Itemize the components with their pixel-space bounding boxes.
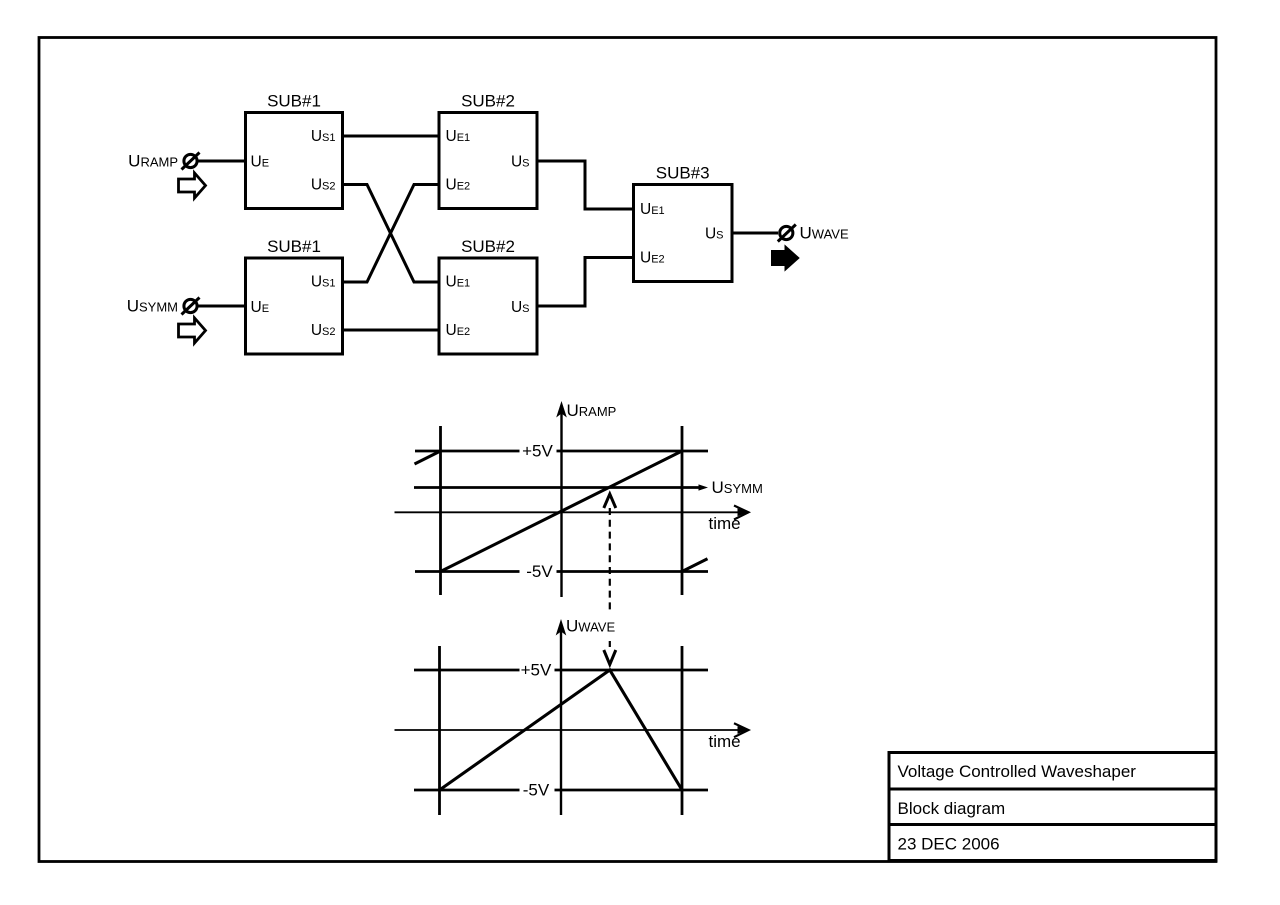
svg-text:-5V: -5V <box>523 781 550 800</box>
svg-text:SUB#1: SUB#1 <box>267 237 321 256</box>
svg-text:USYMM: USYMM <box>127 297 178 316</box>
graph 1 ramp trace next cycle <box>682 559 708 572</box>
wire URAMP to UE (top SUB#1) <box>199 160 246 163</box>
svg-text:+5V: +5V <box>522 442 553 461</box>
output arrow UWAVE (solid) <box>772 246 800 271</box>
wire US2(bottom SUB#1) to UE2(bottom SUB#2) <box>343 329 440 332</box>
graph 1 -5V level line <box>415 570 708 573</box>
svg-text:time: time <box>709 514 741 533</box>
block SUB#3 <box>634 164 733 282</box>
wire US1(top SUB#1) to UE1(top SUB#2) <box>343 135 440 138</box>
svg-text:URAMP: URAMP <box>128 152 178 171</box>
svg-text:SUB#3: SUB#3 <box>656 164 710 183</box>
graph 1 USYMM level line <box>414 484 708 490</box>
block SUB#2 (top) <box>439 92 537 209</box>
wire US2(top SUB#1) to UE1(bottom SUB#2) crossing <box>343 185 440 283</box>
title block frame <box>889 753 1216 861</box>
input arrow URAMP (hollow) <box>179 173 206 198</box>
svg-text:SUB#2: SUB#2 <box>461 92 515 111</box>
input arrow USYMM (hollow) <box>179 318 206 343</box>
port symbol USYMM (circle slash) <box>182 298 200 315</box>
port symbol URAMP (circle slash) <box>182 153 200 170</box>
graph 2 triangle wave trace <box>440 670 683 790</box>
wire USYMM to UE (bottom SUB#1) <box>199 305 246 308</box>
dashed pointer down arrowhead at UWAVE peak <box>604 650 616 665</box>
graph 1 ramp trace main <box>441 451 683 572</box>
graph 2 time axis <box>395 723 749 737</box>
graph 1 y-axis URAMP <box>556 401 567 597</box>
graph 2 -5V level line <box>414 789 708 792</box>
block SUB#2 (bottom) <box>439 237 537 354</box>
graph 2 left gridline <box>438 646 441 815</box>
graph 1 left gridline <box>439 426 442 595</box>
graph 2 +5V level line <box>414 669 708 672</box>
svg-text:Block diagram: Block diagram <box>898 799 1006 818</box>
graph 1 ramp trace previous cycle <box>415 451 441 464</box>
svg-text:USYMM: USYMM <box>712 478 763 497</box>
wire US(bottom SUB#2) to UE2(SUB#3) <box>537 258 634 307</box>
wire US(SUB#3) to UWAVE output <box>732 232 778 235</box>
svg-text:Voltage Controlled Waveshaper: Voltage Controlled Waveshaper <box>898 762 1137 781</box>
svg-text:-5V: -5V <box>526 562 553 581</box>
dashed pointer line lower part <box>609 641 611 647</box>
port symbol UWAVE (circle slash) <box>778 225 796 242</box>
dashed pointer line upper part <box>609 508 611 614</box>
svg-text:URAMP: URAMP <box>567 401 617 420</box>
svg-text:time: time <box>709 732 741 751</box>
svg-text:UWAVE: UWAVE <box>800 224 849 243</box>
block SUB#1 (bottom) <box>246 237 343 354</box>
svg-text:+5V: +5V <box>521 661 552 680</box>
svg-text:SUB#1: SUB#1 <box>267 92 321 111</box>
wire US(top SUB#2) to UE1(SUB#3) <box>537 161 634 209</box>
block SUB#1 (top) <box>246 92 343 209</box>
graph 1 +5V level line <box>415 450 708 453</box>
graph 2 right gridline <box>681 646 684 815</box>
graph 1 right gridline <box>681 426 684 595</box>
graph 2 y-axis UWAVE <box>556 619 567 815</box>
dashed pointer up arrowhead at USYMM intersection <box>604 494 616 508</box>
wire US1(bottom SUB#1) to UE2(top SUB#2) crossing <box>343 185 440 283</box>
svg-text:UWAVE: UWAVE <box>566 617 615 636</box>
graph 1 time axis <box>395 506 749 520</box>
svg-text:23 DEC 2006: 23 DEC 2006 <box>898 835 1000 854</box>
svg-text:SUB#2: SUB#2 <box>461 237 515 256</box>
